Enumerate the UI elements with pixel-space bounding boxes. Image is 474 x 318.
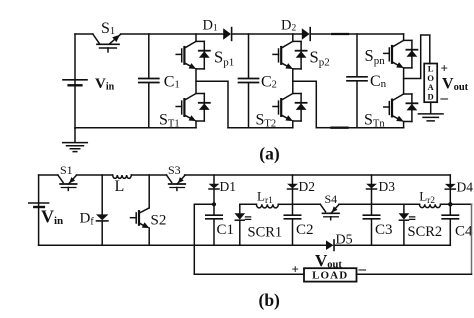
wire: fig-a top rail from D1 to D2 (232, 33, 301, 35)
wire: fig-b bottom rail right of D5 (335, 244, 451, 246)
wire: LOAD bottom stem (430, 102, 432, 113)
thyristor SCR1 (235, 213, 251, 220)
load LOAD (fig b box) (304, 268, 357, 281)
wire: fig-b top rail from left corner to S1 (39, 174, 58, 176)
wire: fig-a top rail segment from Vin corner to S1 (75, 33, 93, 35)
transistor ST2 (IGBT with antiparallel diode) (273, 94, 307, 122)
ground (fig a, below Vin rail) (74, 128, 76, 141)
svg-text:Sp1: Sp1 (214, 48, 234, 69)
wire: cell2 midpoint chain Sp2 emitter to ST2 collector (292, 69, 294, 94)
diode D2 (fig b) (287, 184, 298, 189)
svg-text:C1: C1 (217, 222, 235, 238)
svg-text:LOAD: LOAD (312, 270, 348, 282)
switch S1 (fig a, series IGBT in top rail) (93, 34, 121, 52)
svg-text:Df: Df (80, 211, 95, 228)
wire: cell1 midpoint chain Sp1 emitter to ST1 collector (195, 69, 197, 94)
capacitor Cn (fig a) (356, 34, 358, 128)
capacitor C2 (fig a) (248, 34, 250, 128)
wire: fig-b top rail from L to S3 (131, 174, 166, 176)
wire: fig-a bottom rail dotted continuation (332, 127, 348, 129)
wire: Sp2 collector stub from top rail (292, 34, 294, 41)
wire: fig-a bottom rail segment A (ground segment to ST1 emitter) (75, 127, 196, 129)
svg-text:C2: C2 (296, 222, 314, 238)
wire: load line right segment (357, 273, 472, 275)
diode Df (freewheel, fig b) (96, 214, 108, 220)
svg-text:S4: S4 (325, 192, 338, 206)
capacitor C4 (fig b) (442, 215, 458, 219)
wire: branch 1 (D1/C1 leg, fig b) (213, 175, 215, 245)
capacitor C1 (fig b) (206, 215, 222, 219)
wire: fig-b top rail from S1 to L coil (77, 174, 113, 176)
svg-text:ST1: ST1 (159, 112, 180, 130)
svg-text:L: L (115, 178, 125, 195)
svg-text:–: – (358, 262, 367, 278)
wire: cell-n midpoint tap to load bridge (404, 35, 430, 79)
wire: ST1 emitter drop to bottom segment A (195, 121, 197, 128)
source Vin (battery, fig a) (63, 79, 87, 81)
svg-text:Vin: Vin (41, 206, 63, 227)
svg-text:SCR1: SCR1 (248, 225, 283, 241)
svg-text:S2: S2 (151, 213, 167, 229)
wire: fig-a bottom rail segment B (cell1 midpoint to ST2 emitter) (228, 127, 293, 129)
capacitor C1 (fig a) (148, 34, 150, 128)
wire: fig-b bottom rail left of D5 (39, 244, 326, 246)
switch S3 (fig b) (167, 175, 186, 190)
load LOAD (fig a, vertical box) (424, 64, 437, 103)
svg-text:+: + (441, 61, 448, 76)
svg-text:D2: D2 (281, 18, 296, 34)
wire: Lr2 to branch 4 (441, 203, 472, 205)
wire: branch 2 to S4 (293, 203, 321, 205)
svg-text:D1: D1 (220, 179, 237, 194)
svg-text:D1: D1 (203, 18, 218, 34)
wire: branch 2 (D2/C2 leg, fig b) (292, 175, 294, 245)
wire: cell2 midpoint tap to bottom segment C (293, 81, 317, 127)
svg-text:Spn: Spn (365, 46, 386, 67)
diode D3 (fig b) (366, 184, 377, 189)
svg-text:C4: C4 (455, 224, 473, 240)
switch S4 (fig b, lateral) (320, 204, 339, 219)
inductor L (fig b, in top rail) (113, 175, 132, 178)
wire: right return from node 4 down to load line (471, 204, 473, 274)
wire: fig-b top rail from S3 to D4 branch corner (185, 174, 451, 176)
svg-text:S1: S1 (60, 163, 73, 177)
switch S1 (fig b) (58, 175, 77, 190)
wire: cell1 midpoint tap to bottom segment B (196, 81, 228, 127)
inductor Lr1 (256, 204, 278, 208)
svg-text:(a): (a) (259, 144, 280, 164)
diode D1 (series in top rail) (223, 28, 231, 40)
transistor Spn (IGBT with antiparallel diode) (384, 40, 418, 68)
wire: output tap from node 1 down to load line (194, 204, 214, 274)
wire: fig-b left rail (38, 175, 40, 245)
inductor Lr2 (420, 204, 441, 207)
wire: SCR1 top corner to Lr1 (240, 203, 257, 205)
svg-text:Lr2: Lr2 (419, 189, 435, 207)
switch S2 branch wire from top rail (148, 175, 150, 208)
wire: load line left segment (194, 273, 304, 275)
wire: Spn collector corner from top rail end (403, 34, 405, 40)
wire: fig-a top rail from D2 to dotted break (311, 33, 330, 35)
svg-text:Cn: Cn (370, 73, 387, 90)
wire: fig-a top rail dotted continuation (332, 33, 348, 35)
node dot at D1/C1 junction (212, 202, 216, 206)
wire: ST2 emitter drop to bottom segment B (292, 121, 294, 128)
ground (fig a, below LOAD) (418, 114, 443, 121)
wire: STn emitter drop to bottom segment C (403, 122, 405, 128)
svg-text:D: D (427, 92, 433, 102)
source Vin (battery, fig b) (29, 202, 49, 204)
wire: fig-a left rail (Vin branch) (74, 34, 76, 128)
svg-text:S1: S1 (101, 20, 115, 37)
wire: Sp1 collector stub from top rail (195, 34, 197, 41)
wire: fig-a top rail from dots to cell n (349, 33, 404, 35)
svg-text:C1: C1 (164, 74, 180, 91)
svg-text:Lr1: Lr1 (257, 189, 273, 207)
wire: fig-a bottom rail segment C after dots to STn emitter (349, 127, 404, 129)
diode D5 (series in bottom rail) (326, 240, 333, 250)
wire: cell-n midpoint chain Spn emitter to STn collector (403, 68, 405, 94)
wire: S4 to branch 3 (339, 203, 372, 205)
svg-text:S3: S3 (168, 163, 181, 177)
thyristor SCR1 branch wire (239, 204, 241, 245)
svg-text:Vin: Vin (95, 76, 115, 93)
wire: branch 3 (D3/C3 leg, fig b) (371, 175, 373, 245)
capacitor C2 (fig b) (284, 215, 300, 219)
transistor Sp2 (IGBT with antiparallel diode) (273, 41, 307, 69)
svg-text:SCR2: SCR2 (408, 224, 443, 240)
thyristor SCR2 (399, 213, 415, 220)
wire: Lr1 to branch 2 (278, 203, 292, 205)
svg-text:STn: STn (364, 112, 385, 130)
diode D1 (fig b) (209, 184, 220, 189)
svg-text:D4: D4 (457, 180, 474, 195)
transistor S2 (vertical IGBT, fig b) (131, 208, 150, 228)
wire: branch 4 (D4/C4 leg, fig b) (449, 175, 451, 245)
wire: fig-a bottom rail segment C solid part before dots (316, 127, 330, 129)
transistor Sp1 (IGBT with antiparallel diode) (176, 41, 210, 69)
wire: SCR2 corner to Lr2 (404, 203, 420, 205)
svg-text:(b): (b) (259, 290, 281, 310)
svg-text:Vout: Vout (315, 251, 342, 271)
svg-text:D3: D3 (379, 179, 396, 194)
transistor STn (IGBT with antiparallel diode) (384, 94, 418, 122)
node dot at D4/C4 junction (448, 202, 452, 206)
svg-text:–: – (440, 91, 449, 107)
svg-text:ST2: ST2 (256, 112, 277, 130)
diode Df branch wire (101, 175, 103, 245)
svg-text:C2: C2 (261, 74, 277, 91)
transistor ST1 (IGBT with antiparallel diode) (176, 94, 210, 122)
wire: S2 emitter to bottom rail (148, 228, 150, 245)
wire: fig-a top rail from S1 to D1 (121, 33, 224, 35)
svg-text:C3: C3 (375, 222, 393, 238)
svg-text:Sp2: Sp2 (310, 48, 330, 69)
svg-text:+: + (292, 262, 299, 277)
diode D4 (fig b) (445, 184, 456, 189)
diode D2 (series in top rail) (302, 28, 310, 40)
capacitor C3 (fig b) (363, 215, 379, 219)
thyristor SCR2 branch wire (372, 203, 404, 205)
svg-text:D2: D2 (299, 179, 316, 194)
